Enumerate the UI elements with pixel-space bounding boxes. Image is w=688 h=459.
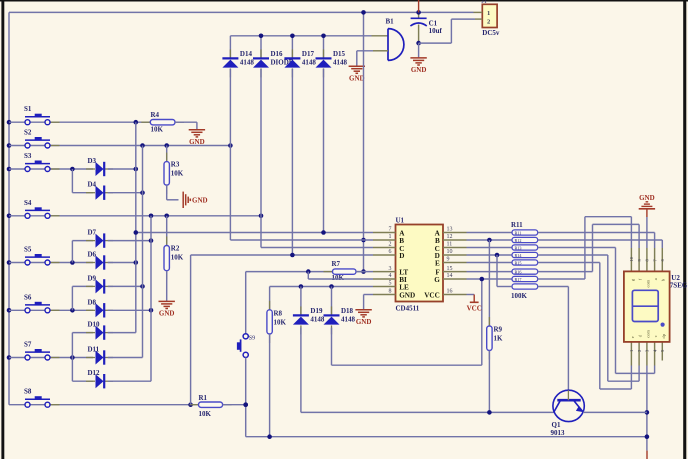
svg-text:R17: R17	[515, 277, 522, 282]
label U1 pin 13	[447, 227, 453, 233]
svg-text:R8: R8	[274, 310, 283, 318]
svg-text:6: 6	[389, 249, 392, 255]
wire seg-d	[538, 255, 639, 381]
svg-text:U2: U2	[671, 274, 680, 282]
wire +5V drop x363	[363, 12, 365, 271]
wire diode D17 top	[291, 36, 293, 58]
wire R3 to ground	[167, 185, 179, 200]
svg-text:S1: S1	[24, 105, 32, 113]
label U1 pin 3	[389, 266, 392, 272]
svg-text:10: 10	[447, 249, 453, 255]
label GND R3	[192, 197, 208, 205]
wire segment F row	[467, 271, 513, 273]
junction row-A D15	[321, 230, 326, 235]
svg-text:S2: S2	[24, 129, 32, 137]
svg-text:4148: 4148	[341, 315, 356, 323]
svg-text:R3: R3	[171, 161, 180, 169]
border top	[0, 0, 688, 2]
wire U1 pin16 to VCC	[467, 294, 475, 296]
svg-text:10K: 10K	[171, 254, 184, 262]
wire D4 row in	[72, 192, 93, 194]
wire J1 pin1 stub	[474, 11, 483, 13]
label U1 pin 14	[447, 273, 453, 279]
junction rail S2	[7, 143, 12, 148]
svg-text:10K: 10K	[199, 410, 212, 418]
svg-text:R13: R13	[515, 245, 522, 250]
junction rail S6	[7, 308, 12, 313]
svg-text:VCC: VCC	[424, 292, 440, 300]
svg-text:100K: 100K	[511, 292, 528, 300]
wire 7seg bottom pin dp	[661, 342, 663, 361]
wire S4 row	[9, 215, 261, 217]
svg-text:13: 13	[447, 227, 453, 233]
svg-text:4148: 4148	[333, 58, 348, 66]
wire U1 right pin 14 stub	[443, 278, 467, 280]
svg-text:R4: R4	[151, 111, 160, 119]
junction B-row R9	[487, 238, 492, 243]
junction S2 col-B	[140, 143, 145, 148]
svg-text:S5: S5	[24, 246, 32, 254]
diode D3	[86, 157, 113, 176]
diode D18	[324, 306, 356, 334]
junction row-D D17	[290, 253, 295, 258]
svg-text:R15: R15	[515, 260, 522, 265]
svg-text:S9: S9	[249, 335, 255, 341]
svg-text:D8: D8	[88, 298, 97, 306]
wire D12 out	[108, 380, 151, 382]
wire R8 bottom	[269, 334, 271, 437]
diode D10	[86, 321, 113, 340]
resistor R4	[141, 111, 184, 133]
svg-text:GND: GND	[639, 194, 655, 202]
wire top +5V rail	[9, 11, 474, 13]
junction rail S5	[7, 260, 12, 265]
svg-text:14: 14	[447, 273, 453, 279]
wire U1 right pin 9 stub	[443, 262, 467, 264]
resistor R3	[164, 153, 184, 195]
svg-text:R11: R11	[511, 221, 523, 229]
diode D4	[86, 181, 113, 200]
junction x363 R7	[361, 269, 366, 274]
svg-text:S7: S7	[24, 341, 32, 349]
wire B1 lower pin	[373, 50, 388, 52]
svg-text:10K: 10K	[332, 274, 345, 282]
junction S5 branch	[70, 260, 75, 265]
wire D10 row in	[72, 332, 93, 334]
resistor R1	[190, 394, 232, 418]
svg-text:GND: GND	[192, 197, 208, 205]
wire diode D16 top	[260, 36, 262, 58]
svg-text:S6: S6	[24, 293, 32, 301]
svg-text:9: 9	[447, 257, 450, 263]
diode D15	[316, 49, 348, 77]
svg-text:U1: U1	[396, 216, 405, 224]
wire BI branch to U1 pin4	[308, 272, 373, 279]
svg-text:D3: D3	[88, 157, 97, 165]
transistor Q1 (9013)	[551, 390, 585, 437]
wire S5 branch up	[71, 241, 73, 263]
svg-text:4148: 4148	[310, 315, 325, 323]
label U1 pin 6	[389, 249, 392, 255]
wire 7seg top pin com	[646, 248, 648, 271]
svg-text:GND: GND	[411, 66, 427, 74]
wire D18 bottom	[332, 328, 482, 366]
svg-text:11: 11	[447, 242, 453, 248]
capacitor C1	[410, 18, 442, 35]
wire D18 top	[331, 287, 333, 316]
junction S8 col-191	[188, 402, 193, 407]
ground R4	[189, 130, 205, 146]
wire feed from top edge (red)	[418, 0, 420, 12]
svg-text:e: e	[630, 336, 635, 338]
wire segment D row	[467, 254, 513, 256]
label U1 pin 16	[447, 289, 453, 295]
wire S7 branch	[71, 333, 73, 382]
resistor R9	[487, 317, 503, 360]
svg-text:D10: D10	[88, 321, 101, 329]
wire U1 left pin 5 stub	[373, 286, 396, 288]
svg-text:1K: 1K	[494, 335, 504, 343]
wire S6 branch up	[71, 286, 73, 310]
wire S5 row	[9, 262, 93, 264]
junction S1 col-A	[134, 120, 139, 125]
junction rail S1	[7, 120, 12, 125]
switch S2	[24, 129, 60, 149]
label U1 pin 12	[447, 234, 453, 240]
junction bus x323	[321, 34, 326, 39]
ground R3 (sideways)	[183, 192, 190, 208]
switch S7	[24, 341, 60, 361]
buzzer B1	[386, 18, 404, 61]
label U1 pin 2	[389, 242, 392, 248]
wire segment G row	[467, 278, 513, 280]
junction common emitter-row	[645, 410, 650, 415]
resistor R7	[324, 260, 366, 282]
svg-text:R16: R16	[515, 269, 522, 274]
junction S9 R1-row	[243, 402, 248, 407]
wire seg-a	[538, 233, 655, 249]
svg-text:B1: B1	[386, 18, 395, 26]
wire LE row to U1 pin5	[270, 286, 373, 288]
diode D14	[222, 49, 254, 77]
svg-text:D9: D9	[88, 274, 97, 282]
wire R2 top	[166, 216, 168, 246]
svg-text:4148: 4148	[240, 58, 255, 66]
junction S2 D14-line	[228, 143, 233, 148]
svg-text:G: G	[434, 276, 440, 284]
junction S6 branch	[70, 308, 75, 313]
wire U1 left pin 4 stub	[373, 278, 396, 280]
wire U1 left pin 1 stub	[373, 239, 396, 241]
junction S7 branch	[70, 355, 75, 360]
ground B1	[349, 66, 365, 82]
wire 7seg top pin a	[654, 248, 656, 271]
svg-text:a: a	[653, 278, 658, 280]
wire C1 top stub	[418, 12, 420, 18]
wire R4 to ground	[175, 122, 197, 129]
junction S2 R3	[164, 143, 169, 148]
svg-text:D14: D14	[240, 50, 253, 58]
svg-text:GND: GND	[356, 318, 372, 326]
label U1 pin 10	[447, 249, 453, 255]
wire B1 top stub	[372, 35, 389, 37]
border right	[683, 0, 686, 459]
junction R7 BI-branch	[306, 269, 311, 274]
resistor R8	[267, 301, 287, 343]
wire D19 top	[300, 287, 302, 316]
switch S3	[24, 152, 60, 172]
svg-text:R12: R12	[515, 238, 522, 243]
svg-text:4: 4	[389, 273, 392, 279]
svg-text:com: com	[646, 330, 651, 338]
wire R11-8 left	[497, 255, 512, 287]
wire column D (x191)	[190, 255, 192, 405]
wire segment C row	[467, 247, 513, 249]
svg-text:2: 2	[389, 242, 392, 248]
op-amp U1 (CD4511 BCD-7seg latch decoder)	[396, 216, 444, 312]
junction D7 col-151	[149, 238, 154, 243]
junction D3 col-A	[134, 167, 139, 172]
wire S7 row	[9, 357, 93, 359]
wire R8 top	[269, 287, 271, 310]
svg-text:7: 7	[389, 227, 392, 233]
wire seg-f	[538, 224, 639, 271]
junction LE D19	[299, 284, 304, 289]
label U1 pin 11	[447, 242, 453, 248]
svg-text:10K: 10K	[171, 170, 184, 178]
wire 7seg top pin g	[630, 248, 632, 271]
ground R2	[159, 301, 175, 317]
ground U1 pin8	[355, 310, 371, 326]
svg-text:VCC: VCC	[467, 305, 482, 313]
wire row B to U1 pin1	[230, 239, 373, 241]
wire R7 right	[356, 271, 373, 273]
wire U1 right pin 13 stub	[443, 232, 467, 234]
svg-text:GND: GND	[399, 292, 415, 300]
svg-text:5: 5	[389, 281, 392, 287]
wire U1 right pin 12 stub	[443, 239, 467, 241]
svg-text:2: 2	[487, 19, 490, 26]
junction rail S3	[7, 167, 12, 172]
wire D4 out	[108, 192, 143, 194]
wire B1 to ground	[357, 51, 373, 66]
wire S9 down	[246, 358, 647, 437]
svg-text:GND: GND	[159, 310, 175, 318]
wire segment A row	[467, 232, 513, 234]
wire diode D14 top	[229, 36, 231, 58]
svg-text:1: 1	[487, 10, 490, 17]
junction rail S4	[7, 214, 12, 219]
wire C1 bottom	[418, 25, 420, 44]
label U1 pin 8	[389, 289, 392, 295]
wire D8 out	[108, 309, 151, 311]
border left	[1, 0, 4, 459]
wire S3 row	[9, 168, 93, 170]
svg-text:S3: S3	[24, 152, 32, 160]
svg-text:DC5v: DC5v	[482, 29, 500, 37]
diode D6	[86, 251, 113, 270]
switch S6	[24, 293, 60, 313]
svg-text:D: D	[399, 252, 404, 260]
junction rail S7	[7, 355, 12, 360]
switch S9	[237, 330, 255, 361]
svg-text:4148: 4148	[302, 58, 317, 66]
wire D16 column	[260, 69, 262, 248]
svg-text:CD4511: CD4511	[396, 305, 420, 313]
wire U1 right pin 15 stub	[443, 271, 467, 273]
resistor R2	[164, 237, 184, 280]
wire U1 left pin 7 stub	[373, 232, 396, 234]
junction common bottom-row	[645, 434, 650, 439]
svg-text:dp: dp	[661, 333, 666, 338]
wire 7seg bottom pin com	[646, 342, 648, 366]
svg-text:D18: D18	[341, 307, 354, 315]
wire left rail	[8, 12, 10, 404]
svg-text:12: 12	[447, 234, 453, 240]
wire S3 branch down	[71, 169, 73, 193]
wire U1 right pin 11 stub	[443, 247, 467, 249]
ground C1	[410, 58, 426, 74]
svg-text:10K: 10K	[274, 319, 287, 327]
wire U1 left pin 3 stub	[373, 271, 396, 273]
label U1 pin 1	[389, 234, 392, 240]
junction LE D18	[329, 284, 334, 289]
wire C1 to ground	[418, 43, 420, 57]
wire common bottom	[646, 366, 648, 451]
svg-text:10: 10	[629, 256, 634, 261]
junction D4 col-B	[140, 190, 145, 195]
svg-text:D11: D11	[88, 346, 100, 354]
junction R8 bottom-row	[267, 434, 272, 439]
junction D9 col-B	[140, 284, 145, 289]
label U1 pin 15	[447, 266, 453, 272]
diode D9	[86, 274, 113, 293]
svg-text:R11: R11	[515, 230, 522, 235]
wire seg-e	[538, 263, 632, 390]
svg-text:S8: S8	[24, 388, 32, 396]
svg-text:com: com	[646, 279, 651, 287]
wire top diode bus	[230, 35, 371, 37]
junction D6 col-A	[134, 260, 139, 265]
junction bus x292	[290, 34, 295, 39]
junction S3 branch	[70, 167, 75, 172]
junction C1 rail	[416, 10, 421, 15]
svg-text:9013: 9013	[551, 429, 566, 437]
wire 7seg bottom pin e	[630, 342, 632, 366]
junction C1 J1 node	[416, 41, 421, 46]
diode D17	[284, 49, 316, 77]
labels 7seg pin numbers	[629, 256, 665, 352]
wire seg-c	[538, 248, 655, 374]
svg-text:D19: D19	[310, 307, 323, 315]
wire D6 out	[108, 262, 136, 264]
svg-text:D15: D15	[333, 50, 346, 58]
svg-text:16: 16	[447, 289, 453, 295]
wire D9 out	[108, 285, 143, 287]
diode D8	[86, 298, 113, 317]
wire U1 left pin 8 stub	[373, 294, 396, 296]
display U2 (7-segment)	[624, 271, 688, 342]
svg-text:B: B	[435, 237, 440, 245]
wire segment B row	[467, 239, 513, 241]
wire D10 out	[108, 332, 136, 334]
svg-text:3: 3	[389, 266, 392, 272]
svg-text:R14: R14	[515, 253, 523, 258]
junction bus x261	[259, 34, 264, 39]
junction S4 D16-line	[259, 214, 264, 219]
wire D12 row in	[72, 380, 93, 382]
wire U1 right pin 16 stub	[443, 294, 467, 296]
svg-text:D4: D4	[88, 181, 97, 189]
label U1 pin 9	[447, 257, 450, 263]
svg-text:R1: R1	[199, 394, 208, 402]
wire G-net drop	[481, 279, 483, 365]
wire U1 pin8 to ground	[364, 295, 373, 310]
ground 7seg common (top)	[639, 194, 655, 217]
wire J1 pin2 stub	[475, 18, 482, 20]
svg-text:8: 8	[389, 289, 392, 295]
junction row-A col-A	[134, 230, 139, 235]
svg-text:R7: R7	[332, 260, 341, 268]
switch S1	[24, 105, 60, 125]
svg-text:GND: GND	[349, 74, 365, 82]
wire R7 left to S9	[246, 272, 333, 334]
wire D7 row in	[72, 240, 93, 242]
label U1 pin 4	[389, 273, 392, 279]
junction G-row drop	[480, 277, 485, 282]
svg-text:10K: 10K	[151, 126, 164, 134]
wire R9 top	[488, 240, 490, 326]
wire R9 bottom	[488, 351, 490, 413]
svg-text:D12: D12	[88, 369, 101, 377]
wire column A (S1)	[135, 122, 137, 332]
wire D15 column	[323, 69, 325, 233]
wire D14 column	[229, 69, 231, 240]
wire common feed bottom edge (red)	[646, 451, 648, 459]
wire seg-b	[538, 240, 663, 248]
wire R3 top	[166, 146, 168, 162]
wire common top	[646, 217, 648, 248]
svg-text:D7: D7	[88, 229, 97, 237]
diode D12	[86, 369, 113, 388]
wire Q1 right to common	[583, 411, 647, 413]
wire 7seg bottom pin c	[654, 342, 656, 366]
wire column B (S2)	[142, 146, 144, 358]
wire S6 row	[9, 309, 93, 311]
label U1 pin 5	[389, 281, 392, 287]
wire diode D15 top	[323, 36, 325, 58]
svg-text:D16: D16	[271, 50, 284, 58]
wire row A to U1 pin7	[136, 232, 373, 234]
wire D19 bottom	[301, 328, 554, 413]
svg-text:S4: S4	[24, 199, 32, 207]
junction x363 top rail	[361, 10, 366, 15]
svg-text:R9: R9	[494, 326, 503, 334]
wire D3 out	[108, 168, 136, 170]
switch S4	[24, 199, 60, 219]
svg-text:7SEG: 7SEG	[670, 282, 688, 290]
wire D11 out	[108, 357, 143, 359]
wire D7 out	[108, 240, 151, 242]
junction S4 col-151	[149, 214, 154, 219]
svg-text:B: B	[399, 237, 404, 245]
wire S1 row	[9, 121, 150, 123]
junction x363 B-row	[361, 238, 366, 243]
svg-text:J1: J1	[482, 0, 487, 5]
svg-text:E: E	[435, 259, 440, 267]
power VCC U1 pin16	[467, 295, 482, 313]
diode D16	[253, 49, 294, 77]
